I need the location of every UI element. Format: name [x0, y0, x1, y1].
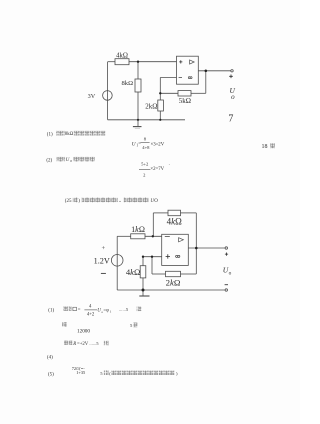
- svg-text:1.2V: 1.2V: [94, 257, 110, 266]
- resistor 1k: [131, 234, 145, 239]
- cjk: dian zu liang duan dian ya: [73, 131, 105, 136]
- resistor 2k vertical: [158, 100, 164, 111]
- svg-text:o: o: [70, 159, 72, 163]
- wire: 1k to op-amp minus input: [145, 235, 162, 237]
- terminal circuit2 output -: [225, 289, 227, 291]
- op-amp U2 triangle: [179, 238, 184, 242]
- svg-text:×2=7V: ×2=7V: [150, 167, 164, 172]
- wire: source vertical through circle to rail: [116, 236, 118, 290]
- wire: 2k top segment: [159, 93, 161, 100]
- wire: 2k bottom to rail: [159, 111, 161, 120]
- wire: source top to 1k: [117, 235, 131, 237]
- line B2: [62, 322, 67, 327]
- op-amp U1 triangle symbol: [190, 60, 195, 64]
- cjk: yin wei: [64, 341, 72, 345]
- svg-text:o: o: [229, 270, 232, 276]
- op-amp2 plus input: [166, 254, 170, 258]
- svg-text:×3=2V: ×3=2V: [151, 142, 165, 147]
- op-amp U1 minus input mark: [179, 77, 182, 79]
- op-amp U1 body: [177, 56, 199, 84]
- wire: up to output node: [195, 248, 197, 274]
- svg-text:o: o: [231, 93, 235, 101]
- wire: 4k vertical bottom to rail: [142, 278, 144, 290]
- svg-text:=φ: =φ: [103, 308, 109, 313]
- cjk: dui yu: [56, 131, 65, 136]
- cjk: yin wei: [63, 306, 71, 310]
- resistor 4k (circuit1 top): [115, 59, 129, 65]
- wire: 8k resistor top segment: [137, 62, 139, 79]
- wire: bottom rail: [117, 289, 225, 291]
- svg-text:2kΩ: 2kΩ: [166, 278, 181, 288]
- cjk: qiu shu chu dian ya: [124, 198, 149, 203]
- wire: plus input wire: [143, 256, 162, 258]
- svg-text:18: 18: [262, 144, 268, 150]
- terminal circuit2 output +: [225, 247, 227, 249]
- svg-text:2kΩ: 2kΩ: [145, 102, 157, 110]
- svg-text:1kΩ: 1kΩ: [131, 225, 145, 234]
- svg-text:(1): (1): [48, 308, 54, 313]
- wire: top right horiz: [181, 212, 197, 214]
- junction dots circuit2: [142, 235, 198, 291]
- wire: output: [188, 247, 225, 249]
- svg-text:O: O: [154, 199, 158, 204]
- svg-text:(1): (1): [47, 132, 53, 137]
- svg-text:4+8: 4+8: [142, 145, 150, 150]
- svg-text:(5): (5): [48, 372, 54, 377]
- svg-text:4kΩ: 4kΩ: [167, 216, 183, 226]
- svg-text:4kΩ: 4kΩ: [116, 53, 128, 60]
- wire: feedback loop top left vertical: [152, 213, 154, 236]
- wire: 4k vertical top segment: [142, 257, 144, 266]
- wire: top left horiz: [153, 212, 168, 214]
- wire: output of op-amp1: [198, 70, 231, 72]
- wire: 2k branch down: [151, 257, 153, 274]
- source minus: [101, 272, 106, 274]
- node: minus input junction: [152, 235, 154, 237]
- svg-text:12000: 12000: [77, 328, 90, 334]
- op-amp1 infinity: [188, 77, 192, 79]
- output plus: [225, 253, 228, 256]
- node: plus input junction 2k: [151, 256, 153, 258]
- node: plus input junction 4k: [142, 256, 144, 258]
- svg-text:4kΩ: 4kΩ: [126, 267, 141, 277]
- svg-text:=: =: [138, 142, 141, 147]
- wire: to 2k resistor: [152, 273, 166, 275]
- resistor 8k vertical: [135, 79, 141, 92]
- svg-text:+: +: [102, 245, 106, 252]
- wire: inverting input from op-amp to vertical: [160, 77, 176, 79]
- svg-text:=+2V: =+2V: [77, 342, 89, 347]
- cjk: ru tu suo shi dian lu: [82, 198, 118, 203]
- svg-text:3V: 3V: [88, 93, 96, 100]
- op-amp2 infinity: [176, 255, 180, 257]
- svg-text:(2): (2): [46, 158, 52, 163]
- terminal circuit1 output: [231, 70, 233, 72]
- wire: left branch down through source to rail: [107, 62, 109, 120]
- wire: 5k to output vertical: [191, 92, 206, 94]
- junction dots circuit1: [137, 61, 207, 121]
- node: ground junction: [142, 289, 145, 292]
- resistor 5k (feedback): [178, 91, 191, 96]
- svg-text:......5: ......5: [89, 341, 99, 346]
- svg-text:(4): (4): [47, 355, 53, 360]
- node: 2k to rail: [159, 119, 161, 121]
- svg-text:8kΩ: 8kΩ: [65, 132, 74, 137]
- wire: 8k bottom to rail: [137, 92, 139, 120]
- small box glyph: [73, 307, 77, 311]
- source 1.2V circle: [111, 254, 123, 266]
- svg-text:1+35: 1+35: [76, 370, 86, 375]
- wire: 2k to right vertical: [181, 273, 197, 275]
- ground circuit1: [137, 120, 139, 126]
- svg-text:U: U: [66, 158, 70, 163]
- svg-text:......5: ......5: [119, 307, 129, 312]
- svg-text:1: 1: [110, 310, 112, 314]
- svg-text:=: =: [78, 308, 81, 313]
- wire: circuit1 bottom rail: [108, 119, 185, 121]
- cjk: qi ta fang fa jie guo zheng que de ke gei fen: [112, 371, 176, 375]
- wire: node to 5k: [160, 92, 178, 94]
- svg-text:4+2: 4+2: [87, 313, 95, 318]
- svg-text:5+2: 5+2: [141, 162, 149, 167]
- resistor 4k feedback: [168, 210, 181, 216]
- wire: top rail right of 4k to op-amp: [129, 61, 177, 63]
- node: output junction: [205, 70, 208, 73]
- output minus: [225, 284, 228, 286]
- source 3V circle: [103, 91, 113, 101]
- resistor 2k horizontal: [166, 271, 181, 276]
- svg-text:8kΩ: 8kΩ: [122, 80, 134, 87]
- node: feedback junction: [159, 92, 161, 94]
- svg-text:5kΩ: 5kΩ: [179, 97, 191, 105]
- svg-text:R: R: [72, 342, 76, 347]
- wire: feedback right vertical down to output: [195, 213, 197, 248]
- cjk: liang duan dian ya: [73, 157, 95, 162]
- ground circuit2: [142, 290, 144, 296]
- op-amp1 plus input: [179, 60, 182, 63]
- op-amp U2 body: [162, 234, 189, 265]
- node: output junction: [195, 247, 198, 250]
- cjk: dui yu: [57, 157, 66, 162]
- node: top rail / 8k: [137, 61, 139, 63]
- resistor 4k vertical: [140, 266, 146, 278]
- wire: circuit1 top rail left segment: [108, 61, 115, 63]
- op-amp U2 minus input mark: [165, 236, 170, 238]
- node: 8k to rail: [137, 119, 139, 121]
- svg-text:7: 7: [228, 113, 233, 124]
- output plus sign: [229, 75, 233, 79]
- svg-text:(25: (25: [65, 199, 72, 204]
